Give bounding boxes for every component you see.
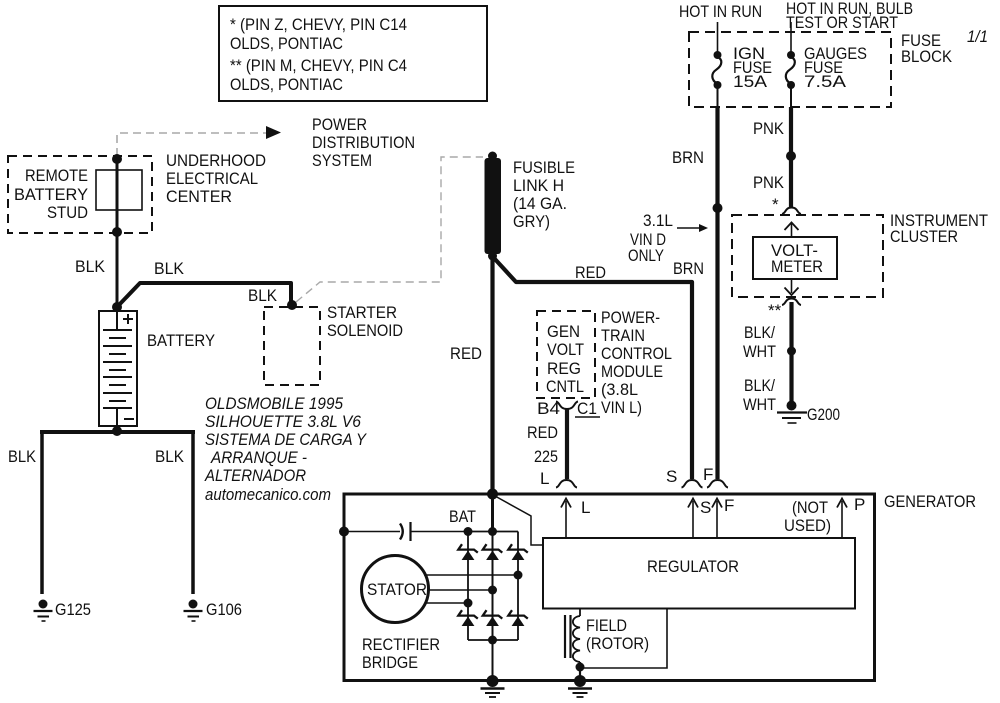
svg-text:CENTER: CENTER	[166, 187, 232, 206]
svg-text:15A: 15A	[733, 72, 768, 91]
arrow terminal F	[716, 501, 718, 537]
voltmeter box	[753, 237, 837, 279]
node stator 2	[488, 586, 497, 595]
wire RED 225 L	[565, 409, 569, 479]
diode D6	[508, 610, 528, 618]
connector arc cluster bottom	[782, 299, 801, 306]
svg-text:SYSTEM: SYSTEM	[312, 151, 372, 170]
svg-text:VIN L): VIN L)	[601, 398, 642, 417]
svg-text:REGULATOR: REGULATOR	[647, 557, 739, 576]
node stud bottom	[112, 227, 122, 237]
wire PNK gauges fuse down	[790, 85, 792, 107]
wire RED branch to S	[493, 257, 692, 479]
svg-text:BATTERY: BATTERY	[14, 185, 88, 204]
svg-text:REMOTE: REMOTE	[25, 166, 88, 185]
fusible link H bar	[485, 158, 502, 254]
svg-text:ARRANQUE -: ARRANQUE -	[210, 448, 307, 467]
svg-text:**: **	[768, 301, 782, 320]
svg-text:POWER-: POWER-	[601, 308, 660, 327]
svg-text:automecanico.com: automecanico.com	[205, 485, 331, 504]
svg-text:(3.8L: (3.8L	[601, 380, 638, 399]
fuse GAUGES 7.5A	[787, 51, 795, 59]
svg-text:BLK/: BLK/	[744, 323, 775, 342]
svg-text:GRY): GRY)	[513, 212, 550, 231]
generator box	[344, 494, 875, 681]
wire diode column 1	[467, 532, 469, 641]
node generator BAT top	[487, 489, 498, 500]
node battery top	[112, 302, 122, 312]
svg-text:RED: RED	[527, 423, 558, 442]
arrow terminal S	[692, 501, 694, 537]
svg-text:HOT IN RUN: HOT IN RUN	[679, 2, 762, 21]
battery minus sign	[124, 418, 134, 420]
node battery bottom	[112, 426, 122, 436]
wire ground bus	[40, 430, 195, 434]
node capacitor branch	[339, 527, 349, 537]
IGN fuse stub	[717, 22, 719, 52]
svg-text:S: S	[666, 467, 677, 486]
node field bottom	[576, 663, 585, 672]
svg-text:CONTROL: CONTROL	[601, 344, 672, 363]
battery plates	[103, 329, 132, 331]
node BAT col1	[464, 527, 473, 536]
arrow terminal L	[565, 501, 567, 537]
svg-text:BRN: BRN	[672, 148, 704, 167]
svg-text:PNK: PNK	[753, 119, 785, 138]
instrument cluster dashed box	[732, 215, 883, 297]
svg-text:(NOT: (NOT	[792, 498, 828, 517]
svg-text:ELECTRICAL: ELECTRICAL	[166, 169, 258, 188]
svg-text:DISTRIBUTION: DISTRIBUTION	[312, 133, 415, 152]
wire RED main vertical	[490, 256, 494, 494]
svg-text:WHT: WHT	[743, 395, 776, 414]
arrow power distribution	[266, 126, 281, 139]
diode D1	[458, 544, 478, 552]
svg-text:G106: G106	[206, 600, 242, 619]
svg-text:** (PIN M, CHEVY, PIN C4: ** (PIN M, CHEVY, PIN C4	[230, 56, 407, 75]
wire stud vertical	[116, 159, 119, 308]
svg-text:7.5A: 7.5A	[804, 72, 847, 91]
svg-text:BLK: BLK	[75, 257, 106, 276]
svg-text:BRN: BRN	[673, 259, 704, 278]
field coil (rotor)	[573, 616, 580, 662]
arrow 3.1L	[677, 227, 700, 229]
wire diode column 3	[517, 532, 519, 641]
connector arc F at generator	[707, 480, 728, 488]
svg-text:BATTERY: BATTERY	[147, 331, 215, 350]
battery box	[99, 311, 137, 426]
svg-text:SILHOUETTE 3.8L V6: SILHOUETTE 3.8L V6	[205, 412, 361, 431]
svg-text:STARTER: STARTER	[327, 303, 397, 322]
svg-text:3.1L: 3.1L	[643, 211, 673, 230]
battery plus sign	[123, 318, 133, 320]
connector arc at PCM	[556, 402, 578, 410]
svg-text:RED: RED	[575, 263, 606, 282]
node starter solenoid	[287, 300, 297, 310]
svg-text:LINK H: LINK H	[513, 176, 564, 195]
svg-text:L: L	[540, 469, 549, 488]
fuse block dashed box	[689, 32, 891, 107]
stator wire 2	[428, 589, 493, 591]
node stator 1	[514, 571, 523, 580]
underhood electrical center dashed box	[8, 156, 152, 233]
svg-text:REG: REG	[547, 359, 581, 378]
ground rectifier	[487, 675, 499, 687]
svg-text:ALTERNADOR: ALTERNADOR	[204, 466, 306, 485]
wire to G106	[191, 432, 195, 594]
connector arc L at generator	[556, 480, 577, 488]
svg-text:CNTL: CNTL	[546, 377, 584, 396]
svg-text:METER: METER	[771, 257, 823, 276]
PCM dashed box	[537, 311, 595, 398]
diode D3	[508, 544, 528, 552]
svg-text:CLUSTER: CLUSTER	[890, 227, 958, 246]
svg-text:G200: G200	[807, 405, 840, 424]
starter solenoid dashed box	[264, 307, 320, 385]
voltmeter up arrow	[791, 224, 793, 238]
svg-text:TEST OR START: TEST OR START	[786, 13, 898, 32]
svg-text:BRIDGE: BRIDGE	[362, 653, 418, 672]
svg-text:BLK: BLK	[155, 447, 185, 466]
svg-text:G125: G125	[55, 600, 91, 619]
svg-text:GENERATOR: GENERATOR	[884, 492, 976, 511]
svg-text:POWER: POWER	[312, 115, 367, 134]
svg-text:F: F	[724, 496, 734, 515]
svg-text:SOLENOID: SOLENOID	[327, 321, 403, 340]
wire regulator to field	[579, 608, 581, 616]
field core lines	[564, 615, 566, 658]
svg-text:OLDS, PONTIAC: OLDS, PONTIAC	[230, 34, 343, 53]
svg-text:(14 GA.: (14 GA.	[513, 194, 567, 213]
wire to capacitor	[344, 531, 400, 533]
svg-text:FUSIBLE: FUSIBLE	[513, 158, 575, 177]
svg-text:225: 225	[534, 447, 558, 466]
wire diode column 2	[491, 494, 494, 532]
wire BRN ign fuse down	[717, 85, 719, 107]
remote battery stud box	[96, 170, 142, 210]
wire BAT row	[468, 531, 518, 533]
svg-text:OLDSMOBILE 1995: OLDSMOBILE 1995	[205, 394, 343, 413]
voltmeter down arrow	[791, 279, 793, 293]
note box	[219, 6, 487, 101]
diode D4	[458, 610, 478, 618]
svg-text:TRAIN: TRAIN	[601, 326, 645, 345]
wire field to ground	[579, 662, 581, 681]
node BAT col2	[488, 527, 497, 536]
stator wire 3	[426, 602, 468, 604]
ground G200	[787, 401, 797, 411]
svg-text:S: S	[700, 498, 711, 517]
svg-text:STUD: STUD	[47, 203, 88, 222]
ground field	[574, 675, 586, 687]
svg-text:SISTEMA DE CARGA Y: SISTEMA DE CARGA Y	[205, 430, 367, 449]
node BLK/WHT	[787, 347, 796, 356]
svg-text:VOLT: VOLT	[547, 340, 584, 359]
dashed wire to power distribution system	[117, 133, 266, 156]
regulator box	[543, 538, 855, 609]
svg-text:FIELD: FIELD	[586, 616, 627, 635]
diode D2	[483, 544, 503, 552]
wire field loop to regulator	[580, 609, 667, 668]
svg-text:C1: C1	[577, 399, 597, 418]
svg-text:STATOR: STATOR	[367, 580, 427, 599]
wire battery to starter solenoid	[117, 283, 291, 307]
stator circle	[362, 556, 429, 623]
diode D5	[483, 610, 503, 618]
wire diode bottom row	[468, 639, 518, 641]
svg-text:1/1: 1/1	[967, 27, 988, 46]
gray dashed wire starter solenoid to fusible link	[296, 157, 483, 302]
connector arc S at generator	[682, 480, 703, 488]
connector arc cluster top	[782, 208, 801, 215]
battery bottom stub	[116, 408, 118, 426]
node BRN 3.1L	[713, 203, 723, 213]
svg-text:BLK: BLK	[154, 259, 185, 278]
wire thin link junction to regulator	[495, 496, 543, 545]
svg-text:BLK: BLK	[248, 286, 278, 305]
svg-text:USED): USED)	[784, 516, 831, 535]
svg-text:F: F	[703, 465, 713, 484]
ground G125	[39, 600, 48, 609]
svg-text:BAT: BAT	[449, 507, 476, 526]
svg-text:RECTIFIER: RECTIFIER	[362, 635, 440, 654]
capacitor C	[400, 524, 403, 540]
svg-text:* (PIN Z, CHEVY, PIN C14: * (PIN Z, CHEVY, PIN C14	[230, 15, 407, 34]
svg-text:P: P	[854, 495, 865, 514]
node PNK	[786, 151, 796, 161]
svg-text:BLK/: BLK/	[744, 376, 775, 395]
fuse IGN 15A	[714, 51, 722, 59]
svg-text:BLK: BLK	[8, 447, 37, 466]
svg-text:L: L	[581, 498, 590, 517]
svg-text:BLOCK: BLOCK	[901, 47, 953, 66]
svg-text:RED: RED	[450, 344, 482, 363]
battery top stub	[116, 311, 118, 330]
arrow terminal P	[841, 501, 843, 537]
wire BLK/WHT	[789, 302, 793, 402]
svg-text:*: *	[772, 195, 779, 214]
node bottom row	[488, 636, 497, 645]
svg-text:ONLY: ONLY	[628, 246, 664, 265]
svg-text:MODULE: MODULE	[601, 362, 663, 381]
GAUGES fuse stub	[790, 22, 792, 52]
svg-text:WHT: WHT	[743, 342, 776, 361]
ground G106	[189, 600, 198, 609]
svg-text:PNK: PNK	[753, 173, 785, 192]
node stud top	[112, 154, 122, 164]
svg-text:UNDERHOOD: UNDERHOOD	[166, 151, 266, 170]
wire to G125	[40, 432, 44, 594]
stator wire 1	[424, 574, 518, 576]
node fusible link bottom	[488, 252, 497, 261]
node fusible link top	[488, 152, 497, 161]
svg-text:GEN: GEN	[547, 322, 580, 341]
node stator 3	[464, 599, 473, 608]
svg-text:(ROTOR): (ROTOR)	[586, 634, 649, 653]
svg-text:OLDS, PONTIAC: OLDS, PONTIAC	[230, 75, 343, 94]
